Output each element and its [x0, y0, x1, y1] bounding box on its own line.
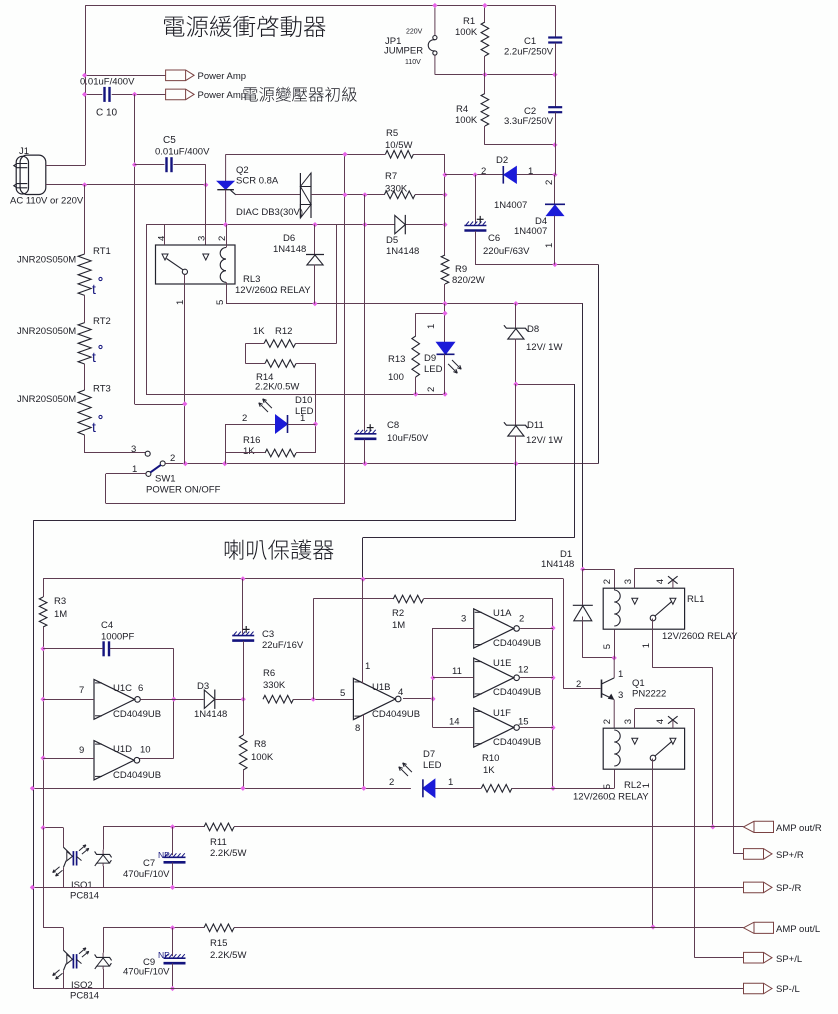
junction R7-D5 left node [362, 192, 367, 197]
junction bus / C4 [41, 646, 46, 651]
svg-text:PC814: PC814 [70, 891, 99, 902]
junction out bus / coil rail [550, 786, 555, 791]
svg-text:3: 3 [197, 236, 208, 241]
svg-text:CD4049UB: CD4049UB [493, 638, 541, 649]
svg-text:C5: C5 [163, 135, 176, 146]
svg-text:6: 6 [138, 683, 143, 694]
svg-text:R5: R5 [386, 128, 398, 139]
port Power Amp 1 [166, 70, 195, 81]
junction bus / U1D in [41, 755, 46, 760]
wire R2 right link [423, 598, 553, 600]
junction bottom rail / R16-D10 [222, 461, 227, 466]
svg-text:RL2: RL2 [624, 780, 641, 791]
svg-text:JNR20S050M: JNR20S050M [17, 394, 76, 405]
svg-text:CD4049UB: CD4049UB [372, 709, 420, 720]
resistor R11 [204, 823, 234, 831]
wire C6 bottom lead [475, 231, 477, 265]
resistor R8 [239, 735, 247, 770]
svg-text:Power Amp: Power Amp [198, 71, 247, 82]
svg-text:R6: R6 [263, 668, 275, 679]
svg-text:R11: R11 [210, 837, 227, 848]
junction R1 bottom / R4 top [482, 72, 487, 77]
op-amp U1F CD4049 [474, 708, 514, 747]
svg-text:U1F: U1F [493, 708, 511, 719]
svg-text:D11: D11 [527, 420, 544, 431]
wire SW1 pin2 to rail [165, 463, 185, 465]
resistor R10 [481, 785, 512, 793]
svg-text:2: 2 [544, 180, 555, 185]
svg-text:3: 3 [623, 579, 634, 584]
wire neutral to lower-left [515, 464, 517, 521]
svg-text:1N4007: 1N4007 [514, 226, 547, 237]
svg-text:0.01uF/400V: 0.01uF/400V [80, 77, 135, 88]
wire C2 top lead [555, 75, 557, 107]
wire C1 top lead [555, 6, 557, 38]
wire gate filter node vertical [364, 195, 366, 432]
resistor R13 [412, 336, 420, 377]
svg-text:10/5W: 10/5W [385, 140, 412, 151]
wire R8 bottom lead [243, 770, 245, 788]
junction RL3 pin1 / C5 net [182, 401, 187, 406]
svg-text:5: 5 [602, 784, 613, 789]
svg-text:4: 4 [655, 579, 666, 584]
op-amp U1C CD4049 [94, 679, 135, 719]
junction y394 / R13 [413, 392, 418, 397]
svg-text:LED: LED [424, 364, 443, 375]
wire C3 bottom lead [243, 641, 245, 699]
svg-text:U1B: U1B [372, 682, 390, 693]
svg-text:12V/260Ω RELAY: 12V/260Ω RELAY [573, 792, 649, 803]
svg-text:R4: R4 [456, 104, 468, 115]
junction cathode line / D6 [312, 222, 317, 227]
title block 電源緩衝啓動器 [164, 17, 184, 37]
svg-text:ISO1: ISO1 [71, 880, 93, 891]
op-amp U1A CD4049 [474, 609, 514, 648]
wire C2 bottom lead [555, 112, 557, 174]
svg-text:SW1: SW1 [155, 474, 176, 485]
svg-text:5: 5 [602, 644, 613, 649]
port AMP out/L [744, 922, 774, 933]
wire RL3 pin2 [226, 225, 228, 248]
port SP-/R [744, 882, 773, 893]
wire input bus vertical [43, 649, 45, 828]
svg-text:R2: R2 [392, 608, 404, 619]
wire R2 left link [313, 599, 315, 699]
wire RT1-RT2 [84, 295, 86, 322]
svg-text:JUMPER: JUMPER [384, 46, 423, 57]
wire SCR gate to DIAC [236, 194, 301, 196]
svg-text:10uF/50V: 10uF/50V [387, 433, 429, 444]
resistor R7 [384, 191, 415, 199]
svg-text:C 10: C 10 [96, 108, 118, 119]
junction D1 top [580, 567, 585, 572]
wire U1E output [520, 677, 553, 679]
transistor Q2 SCR [225, 154, 227, 181]
svg-text:220V: 220V [406, 29, 423, 36]
svg-text:1N4007: 1N4007 [494, 200, 527, 211]
label 電源變壓器初級 [243, 87, 257, 101]
svg-text:Power Amp: Power Amp [198, 90, 247, 101]
svg-text:100K: 100K [455, 115, 478, 126]
wire R10 right lead [512, 788, 614, 790]
svg-text:100K: 100K [251, 752, 274, 763]
resistor R4 [481, 94, 489, 127]
wire R12 top link [336, 225, 338, 344]
svg-text:RL1: RL1 [687, 594, 704, 605]
wire +12V to lower section [574, 384, 576, 537]
wire bottom rail (neutral) [185, 463, 598, 465]
resistor R6 [263, 695, 293, 703]
junction rail / C3 [240, 576, 245, 581]
resistor R2 [393, 595, 423, 603]
svg-text:1: 1 [448, 777, 453, 788]
svg-text:D3: D3 [197, 681, 209, 692]
svg-text:4: 4 [157, 236, 168, 241]
wire D1 feed from top [582, 304, 584, 570]
svg-text:U1D: U1D [113, 744, 132, 755]
diode D7 LED [423, 779, 435, 797]
svg-text:R9: R9 [455, 264, 467, 275]
wire R16 leads [226, 452, 266, 454]
wire RT2-RT3 [84, 364, 86, 390]
svg-text:4: 4 [398, 687, 403, 698]
junction JP1 top rail [432, 3, 437, 8]
svg-text:2.2uF/250V: 2.2uF/250V [504, 47, 554, 58]
diode D9 LED [437, 342, 455, 354]
wire U1C input [43, 699, 94, 701]
wire C5 left lead [135, 164, 165, 166]
wire RT3 to SW1 pin3 [84, 435, 86, 453]
wire D6 bottom lead [314, 265, 316, 304]
wire C8 bottom lead [364, 439, 366, 463]
svg-text:2.2K/0.5W: 2.2K/0.5W [255, 382, 299, 393]
svg-text:ISO2: ISO2 [71, 980, 93, 991]
wire J1 pin bottom (AC live) [46, 184, 206, 186]
junction out bus / U1A [550, 625, 555, 630]
junction SP-R / left rail [30, 885, 35, 890]
svg-text:110V: 110V [405, 59, 421, 66]
wire R4 leads [484, 75, 486, 94]
junction RL1 pin1 / AMP out R [710, 824, 715, 829]
svg-text:RL3: RL3 [243, 274, 260, 285]
svg-text:2: 2 [389, 777, 394, 788]
wire D10-R16 left bracket [225, 424, 227, 464]
svg-text:2: 2 [242, 413, 247, 424]
capacitor C10 [103, 87, 105, 102]
junction rail / U1B pin8 [361, 786, 366, 791]
wire rail to Q1 base [563, 579, 565, 689]
svg-text:R10: R10 [482, 753, 499, 764]
svg-text:1: 1 [641, 783, 652, 788]
svg-text:R3: R3 [54, 596, 66, 607]
svg-text:14: 14 [449, 717, 460, 728]
junction rail / U1B pin1 [360, 577, 365, 582]
diode D8 zener [504, 325, 528, 331]
svg-text:DIAC DB3(30V): DIAC DB3(30V) [236, 207, 303, 218]
junction SP-R / C7 [170, 885, 175, 890]
svg-text:2.2K/5W: 2.2K/5W [210, 950, 246, 961]
resistor R12 [264, 340, 296, 348]
svg-text:11: 11 [452, 666, 462, 677]
svg-text:C3: C3 [262, 629, 274, 640]
wire C3 top lead [242, 579, 244, 634]
wire U1F input [433, 727, 474, 729]
svg-text:AC 110V or 220V: AC 110V or 220V [10, 196, 84, 207]
svg-text:5: 5 [215, 300, 226, 305]
wire C10 left lead [85, 94, 103, 96]
svg-text:R7: R7 [385, 171, 397, 182]
wire U1A output [520, 628, 553, 630]
svg-text:1K: 1K [253, 326, 265, 337]
svg-text:1: 1 [641, 643, 652, 648]
capacitor C1 [548, 36, 562, 38]
junction R4 bottom / C2 [552, 142, 557, 147]
diode D11 zener [504, 422, 528, 428]
capacitor C2 [548, 106, 562, 108]
svg-text:1000PF: 1000PF [101, 632, 134, 643]
svg-text:SP-/L: SP-/L [776, 984, 800, 995]
svg-text:NP: NP [158, 950, 170, 960]
thermistor RT2 [78, 323, 91, 364]
svg-text:D2: D2 [496, 155, 508, 166]
svg-text:1: 1 [300, 413, 305, 424]
svg-text:10: 10 [140, 745, 151, 756]
svg-text:5: 5 [340, 688, 345, 699]
port SP+/R [744, 849, 773, 860]
svg-text:1K: 1K [243, 446, 255, 457]
wire SCR anode line [226, 154, 386, 156]
junction SW1 pin2 / RL3 pin1 [183, 461, 188, 466]
svg-text:7: 7 [79, 685, 84, 696]
wire left rail [85, 6, 87, 166]
op-amp U1D CD4049 [94, 741, 134, 780]
svg-text:U1E: U1E [493, 658, 511, 669]
capacitor C6 [464, 225, 486, 227]
svg-text:1M: 1M [392, 620, 405, 631]
jumper JP1 [434, 6, 436, 36]
resistor R16 [265, 449, 296, 457]
wire D1 top lead [582, 569, 584, 605]
svg-text:100: 100 [388, 372, 404, 383]
svg-text:NP: NP [158, 850, 170, 860]
junction D3 / C3 / R8 [241, 697, 246, 702]
svg-text:2: 2 [602, 579, 613, 584]
svg-text:3.3uF/250V: 3.3uF/250V [504, 116, 554, 127]
wire C9 leads [172, 928, 174, 956]
wire D2 anode line [445, 174, 503, 176]
capacitor C7 [164, 856, 186, 858]
svg-text:12V/260Ω RELAY: 12V/260Ω RELAY [662, 631, 738, 642]
wire C10-C5 vertical [134, 94, 136, 404]
wire upper rail of protector [43, 578, 563, 580]
connector J1 [20, 155, 46, 194]
port Power Amp 2 [166, 89, 195, 100]
port SP+/L [744, 952, 773, 963]
junction left rail / Power Amp 1 [82, 73, 87, 78]
svg-text:1: 1 [528, 166, 533, 177]
junction bus / U1C in [41, 697, 46, 702]
svg-text:R8: R8 [254, 739, 266, 750]
diode D4 [545, 203, 565, 205]
resistor R1 [481, 22, 489, 56]
svg-text:820/2W: 820/2W [452, 275, 485, 286]
svg-text:0.01uF/400V: 0.01uF/400V [155, 147, 210, 158]
junction C10 net / vertical [132, 92, 137, 97]
svg-text:PC814: PC814 [70, 991, 99, 1002]
wire U1B pin8 [363, 715, 365, 789]
diode D1 [573, 604, 593, 606]
svg-text:100K: 100K [455, 27, 478, 38]
wire C5 right lead / RL3 pin3 [174, 164, 206, 166]
junction bottom rail / C8 [362, 461, 367, 466]
svg-text:1N4148: 1N4148 [194, 709, 227, 720]
junction feedback / U1C out [171, 697, 176, 702]
svg-text:1: 1 [365, 661, 370, 672]
svg-text:SP+/L: SP+/L [776, 954, 802, 965]
junction C1 bottom [552, 72, 557, 77]
wire D11 top lead [515, 384, 517, 425]
junction y394 / D9 [442, 392, 447, 397]
junction bottom rail / D11 [513, 461, 518, 466]
wire D4 bottom lead [554, 216, 556, 265]
junction pin5 line / D8 [513, 301, 518, 306]
svg-text:U1C: U1C [113, 683, 132, 694]
wire RT1 top lead [84, 185, 86, 254]
svg-text:330K: 330K [263, 680, 286, 691]
thermistor RT1 [78, 254, 91, 295]
wire D7-R10 lead [435, 788, 481, 790]
wire ISO1 LED bottom [63, 868, 65, 888]
junction AC live / RT chain [82, 182, 87, 187]
wire hot rail to SCR line [344, 154, 346, 503]
svg-text:SP+/R: SP+/R [776, 850, 804, 861]
wire R14 right lead [296, 363, 316, 365]
relay RL2 [603, 728, 684, 769]
wire RL1 pin5 [614, 629, 616, 658]
wire RL1 pin3 to SP+/R [634, 568, 636, 588]
svg-text:RT2: RT2 [93, 316, 111, 327]
svg-text:CD4049UB: CD4049UB [113, 709, 161, 720]
transistor Q1 [601, 680, 603, 698]
junction out bus / U1E [550, 675, 555, 680]
junction left rail / C10 branch [82, 92, 87, 97]
svg-text:1K: 1K [483, 765, 495, 776]
port AMP out/R [744, 821, 774, 832]
wire U1B output [403, 698, 433, 700]
wire C4 right to feedback [110, 648, 174, 650]
wire R6 right lead [293, 699, 353, 701]
svg-text:3: 3 [618, 690, 623, 701]
wire R12-R14 left bracket [245, 343, 264, 345]
svg-text:U1A: U1A [493, 608, 512, 619]
svg-text:12: 12 [518, 665, 529, 676]
svg-text:C1: C1 [524, 36, 536, 47]
svg-text:470uF/10V: 470uF/10V [123, 967, 170, 978]
svg-text:470uF/10V: 470uF/10V [123, 869, 170, 880]
svg-text:C6: C6 [488, 233, 500, 244]
wire R13 bottom lead [415, 377, 417, 394]
svg-text:RT3: RT3 [93, 384, 111, 395]
junction out bus / U1F [550, 725, 555, 730]
svg-text:AMP out/L: AMP out/L [776, 924, 820, 935]
port SP-/L [744, 983, 773, 994]
wire SCR cathode line [146, 224, 395, 226]
diode DIAC DB3 [299, 173, 301, 218]
wire D10 cathode lead [288, 424, 316, 426]
wire ISO1 out top [103, 827, 105, 850]
resistor R5 [385, 151, 413, 159]
junction R6 / R2 vertical [311, 697, 316, 702]
junction R7 right [442, 192, 447, 197]
svg-text:12V/ 1W: 12V/ 1W [526, 435, 562, 446]
junction DIAC / hot rail [342, 192, 347, 197]
diode D6 [306, 254, 324, 256]
wire R7 right lead [415, 194, 445, 196]
wire R13 top link [516, 384, 575, 386]
resistor R3 [39, 597, 47, 627]
svg-text:JNR20S050M: JNR20S050M [17, 255, 76, 266]
wire AMP out/L line [103, 927, 204, 929]
junction cathode line / SCR [223, 222, 228, 227]
junction U1B out / input bus [430, 696, 435, 701]
junction pin5 line / D6 [312, 301, 317, 306]
wire top AC rail [85, 5, 555, 7]
wire C6 top lead [475, 175, 477, 224]
junction AC live / RL3 pin3 net [203, 182, 208, 187]
svg-text:1: 1 [544, 243, 555, 248]
junction AMP R / C7 [170, 824, 175, 829]
resistor R9 [441, 255, 449, 284]
wire D4 top lead [554, 175, 556, 204]
wire U1B pin1 [362, 579, 364, 683]
svg-text:D10: D10 [295, 395, 312, 406]
wire VSS rail left [32, 788, 411, 790]
wire R5-R9 vertical [444, 154, 446, 255]
wire to Power Amp port 1 [85, 75, 166, 77]
svg-text:12V/ 1W: 12V/ 1W [526, 342, 562, 353]
svg-text:D6: D6 [283, 233, 295, 244]
wire U1E input [433, 677, 474, 679]
svg-text:J1: J1 [19, 146, 29, 157]
wire ISO2 out top [103, 928, 105, 953]
svg-text:8: 8 [355, 723, 360, 734]
junction cathode line / D5 anode [362, 222, 367, 227]
wire RL2 pin3 to SP+/L [634, 709, 636, 728]
svg-text:D7: D7 [423, 749, 435, 760]
junction R1 top rail [482, 3, 487, 8]
junction RL2 pin1 / AMP out L [650, 924, 655, 929]
wire R8 top lead [243, 699, 245, 735]
thermistor RT3 [78, 390, 91, 435]
wire U1C output to D3 [141, 699, 204, 701]
svg-text:POWER ON/OFF: POWER ON/OFF [146, 485, 221, 496]
svg-text:2: 2 [481, 166, 486, 177]
junction pin5 line / R9 [442, 301, 447, 306]
capacitor C5 [165, 157, 167, 172]
junction input bus / U1E in [430, 675, 435, 680]
svg-text:C7: C7 [143, 858, 155, 869]
svg-text:CD4049UB: CD4049UB [493, 737, 541, 748]
svg-text:3: 3 [131, 444, 136, 455]
svg-text:LED: LED [423, 760, 442, 771]
op-amp U1B CD4049 [353, 678, 395, 719]
svg-text:CD4049UB: CD4049UB [113, 770, 161, 781]
junction D2 / C2 rail [552, 172, 557, 177]
svg-text:R13: R13 [388, 354, 405, 365]
wire U1D input [43, 758, 94, 760]
relay RL1 [603, 588, 684, 629]
svg-text:t: t [92, 281, 96, 297]
